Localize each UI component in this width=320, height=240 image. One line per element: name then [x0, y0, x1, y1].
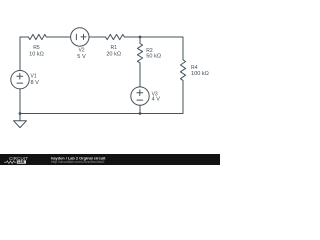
resistor R1	[106, 34, 125, 39]
svg-text:5 V: 5 V	[77, 54, 86, 60]
svg-text:V1: V1	[31, 74, 37, 80]
wire node A to R2	[139, 37, 141, 44]
V3 minus mark	[137, 99, 143, 101]
wire V1 to ground node	[19, 89, 21, 114]
junction dot ground node	[19, 112, 22, 115]
ground	[14, 121, 27, 128]
wire V3 to bottom rail	[139, 105, 141, 113]
svg-text:50 kΩ: 50 kΩ	[146, 54, 161, 60]
V1 minus mark	[17, 82, 23, 84]
resistor R5	[28, 34, 46, 39]
node A junction dot	[139, 36, 142, 39]
footer bar	[0, 154, 220, 165]
V1 plus mark	[17, 74, 23, 80]
wire V2 to R1	[89, 36, 106, 38]
wire node A to top-right corner	[140, 37, 183, 60]
svg-text:R5: R5	[33, 45, 40, 51]
wire bottom rail left section	[20, 113, 140, 115]
svg-text:http://circuitlab.com/c/cnu9wn: http://circuitlab.com/c/cnu9wn/lab2	[51, 160, 105, 164]
wire ground stub	[19, 114, 21, 121]
V2 minus mark	[75, 34, 77, 40]
svg-text:R1: R1	[110, 45, 117, 51]
logo LAB box	[17, 160, 26, 163]
wire R4 to bottom-right corner	[140, 80, 183, 113]
voltage source V2	[71, 28, 89, 46]
wire R5 to V2	[46, 36, 70, 38]
svg-text:V2: V2	[78, 48, 84, 54]
logo resistor squiggle	[4, 161, 16, 164]
svg-text:10 kΩ: 10 kΩ	[29, 51, 44, 57]
junction dot V3 bottom	[139, 112, 142, 115]
V2 plus mark	[81, 34, 86, 39]
voltage source V3	[131, 87, 149, 105]
svg-text:100 kΩ: 100 kΩ	[191, 71, 209, 77]
svg-text:LAB: LAB	[18, 160, 25, 164]
wire R1 to node A	[124, 36, 140, 38]
svg-text:20 kΩ: 20 kΩ	[106, 51, 121, 57]
svg-text:8 V: 8 V	[31, 80, 40, 86]
V3 plus mark	[137, 90, 143, 96]
voltage source V1	[11, 71, 29, 89]
svg-text:4 V: 4 V	[152, 97, 161, 103]
wire top-left vertical segment	[20, 37, 28, 71]
wire R2 to V3	[139, 63, 141, 87]
resistor R2	[137, 44, 142, 63]
resistor R4	[180, 60, 185, 81]
